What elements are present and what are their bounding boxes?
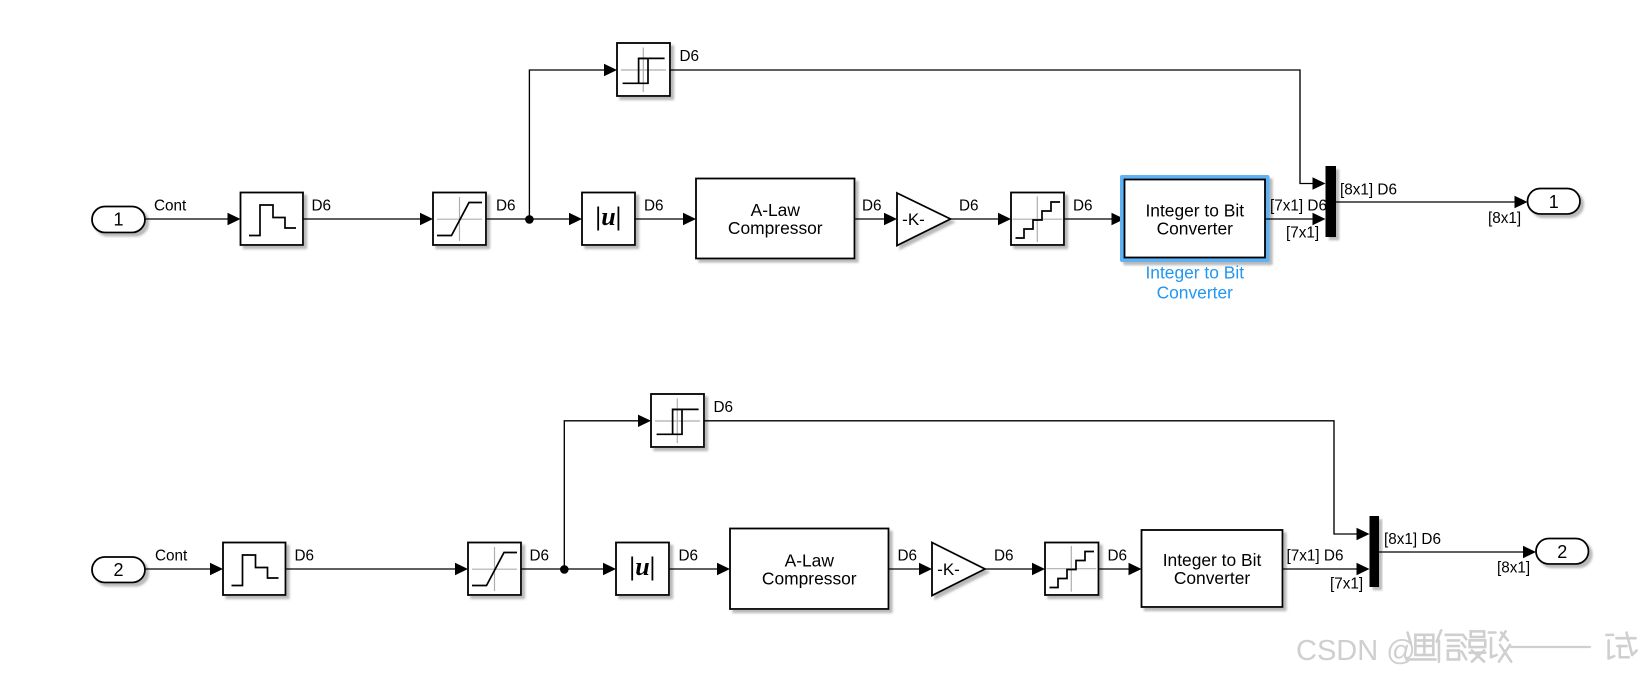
- svg-text:[8x1] D6: [8x1] D6: [1340, 182, 1397, 199]
- svg-text:[8x1]: [8x1]: [1497, 560, 1530, 577]
- svg-text:D6: D6: [959, 198, 979, 215]
- svg-text:1: 1: [1549, 192, 1559, 212]
- watermark hanzi xin: [1437, 630, 1462, 661]
- svg-text:-K-: -K-: [902, 210, 925, 229]
- A-Law Compressor block 2: [730, 529, 889, 610]
- watermark long dash: [1511, 646, 1590, 648]
- wire converter2 to mux2: [1283, 568, 1358, 570]
- svg-text:Converter: Converter: [1157, 283, 1234, 303]
- svg-text:D6: D6: [898, 548, 918, 565]
- svg-text:[7x1]: [7x1]: [1286, 225, 1319, 242]
- wire mux1 to outport 1: [1336, 201, 1516, 203]
- svg-text:D6: D6: [644, 198, 664, 215]
- svg-text:1: 1: [113, 210, 123, 230]
- wire quantizer2 to converter2: [1099, 568, 1130, 570]
- svg-text:[8x1]: [8x1]: [1488, 210, 1521, 227]
- abs block |u| A1: [582, 193, 635, 246]
- svg-text:Integer to Bit: Integer to Bit: [1145, 200, 1244, 220]
- inport 1: [92, 207, 145, 233]
- svg-text:[7x1] D6: [7x1] D6: [1287, 548, 1344, 565]
- svg-text:D6: D6: [530, 548, 550, 565]
- svg-text:D6: D6: [680, 48, 700, 65]
- svg-text:Cont: Cont: [155, 548, 188, 565]
- svg-text:|u|: |u|: [630, 552, 656, 581]
- watermark hanzi man: [1462, 631, 1486, 661]
- svg-text:|u|: |u|: [596, 202, 622, 231]
- svg-text:[7x1] D6: [7x1] D6: [1270, 198, 1327, 215]
- abs block |u| A2: [616, 543, 669, 596]
- wire junction up to relay1: [529, 70, 604, 219]
- svg-text:Cont: Cont: [154, 198, 187, 215]
- saturation block SAT1: [433, 193, 486, 246]
- wire A-Law to gain: [855, 218, 886, 220]
- svg-text:CSDN @: CSDN @: [1296, 635, 1416, 667]
- wire junction up to relay2: [564, 421, 638, 569]
- Integer to Bit Converter 2: [1142, 530, 1283, 607]
- svg-text:D6: D6: [312, 198, 332, 215]
- svg-text:D6: D6: [1108, 548, 1128, 565]
- wire ZOH2 to SAT2: [286, 568, 457, 570]
- svg-text:D6: D6: [862, 198, 882, 215]
- gain -K- G2: [932, 543, 985, 596]
- A-Law Compressor block 1: [696, 179, 855, 259]
- svg-text:D6: D6: [714, 399, 734, 416]
- svg-text:[8x1] D6: [8x1] D6: [1384, 531, 1441, 548]
- watermark hanzi shi: [1606, 633, 1636, 659]
- wire ZOH1 to saturation: [303, 218, 421, 220]
- watermark hanzi tong: [1406, 633, 1435, 660]
- zero-order hold ZOH2: [223, 543, 286, 596]
- wire inport1 to ZOH1: [145, 218, 229, 220]
- svg-text:D6: D6: [994, 548, 1014, 565]
- svg-text:A-Law: A-Law: [751, 200, 801, 220]
- svg-text:2: 2: [113, 560, 123, 580]
- svg-text:Converter: Converter: [1174, 568, 1251, 588]
- mux 2: [1370, 516, 1380, 587]
- gain -K- G1: [897, 193, 951, 246]
- svg-text:D6: D6: [1073, 198, 1093, 215]
- wire relay1 to mux top input: [670, 70, 1314, 184]
- svg-text:D6: D6: [679, 548, 699, 565]
- wire abs2 to A-Law2: [669, 568, 718, 570]
- junction node: [560, 565, 569, 574]
- wire SAT1 to abs with junction: [486, 218, 570, 220]
- wire inport2 to ZOH2: [145, 568, 211, 570]
- outport 1: [1528, 189, 1581, 215]
- svg-text:Compressor: Compressor: [728, 218, 823, 238]
- svg-text:[7x1]: [7x1]: [1330, 576, 1363, 593]
- svg-text:D6: D6: [295, 548, 315, 565]
- svg-text:Converter: Converter: [1157, 218, 1234, 238]
- svg-text:A-Law: A-Law: [785, 550, 835, 570]
- svg-text:2: 2: [1557, 542, 1567, 562]
- wire converter to mux: [1265, 218, 1314, 220]
- outport 2: [1536, 539, 1589, 565]
- relay block R2: [651, 394, 704, 447]
- zero-order hold ZOH1: [241, 193, 304, 246]
- Integer to Bit Converter 1 (selected, blue highlight): [1120, 175, 1270, 262]
- wire A-Law2 to gain2: [889, 568, 921, 570]
- svg-text:Integer to Bit: Integer to Bit: [1145, 263, 1244, 283]
- svg-text:Integer to Bit: Integer to Bit: [1163, 550, 1262, 570]
- svg-text:Compressor: Compressor: [762, 568, 857, 588]
- junction node: [525, 215, 534, 224]
- wire abs to A-Law: [635, 218, 684, 220]
- wire mux2 to outport 2: [1379, 551, 1524, 553]
- saturation block SAT2: [468, 543, 521, 596]
- inport 2: [92, 557, 145, 583]
- wire relay2 to mux2 top input: [704, 421, 1358, 534]
- mux 1: [1326, 166, 1337, 237]
- wire gain to quantizer: [951, 218, 1000, 220]
- quantizer block Q2: [1045, 543, 1099, 596]
- wire SAT2 to abs2 with junction: [521, 568, 604, 570]
- relay block R1: [617, 43, 670, 96]
- svg-text:D6: D6: [496, 198, 516, 215]
- wire quantizer to converter: [1064, 218, 1113, 220]
- quantizer block Q1: [1011, 193, 1064, 246]
- watermark hanzi tan: [1489, 631, 1511, 661]
- svg-text:-K-: -K-: [937, 560, 960, 579]
- wire gain2 to quantizer2: [985, 568, 1033, 570]
